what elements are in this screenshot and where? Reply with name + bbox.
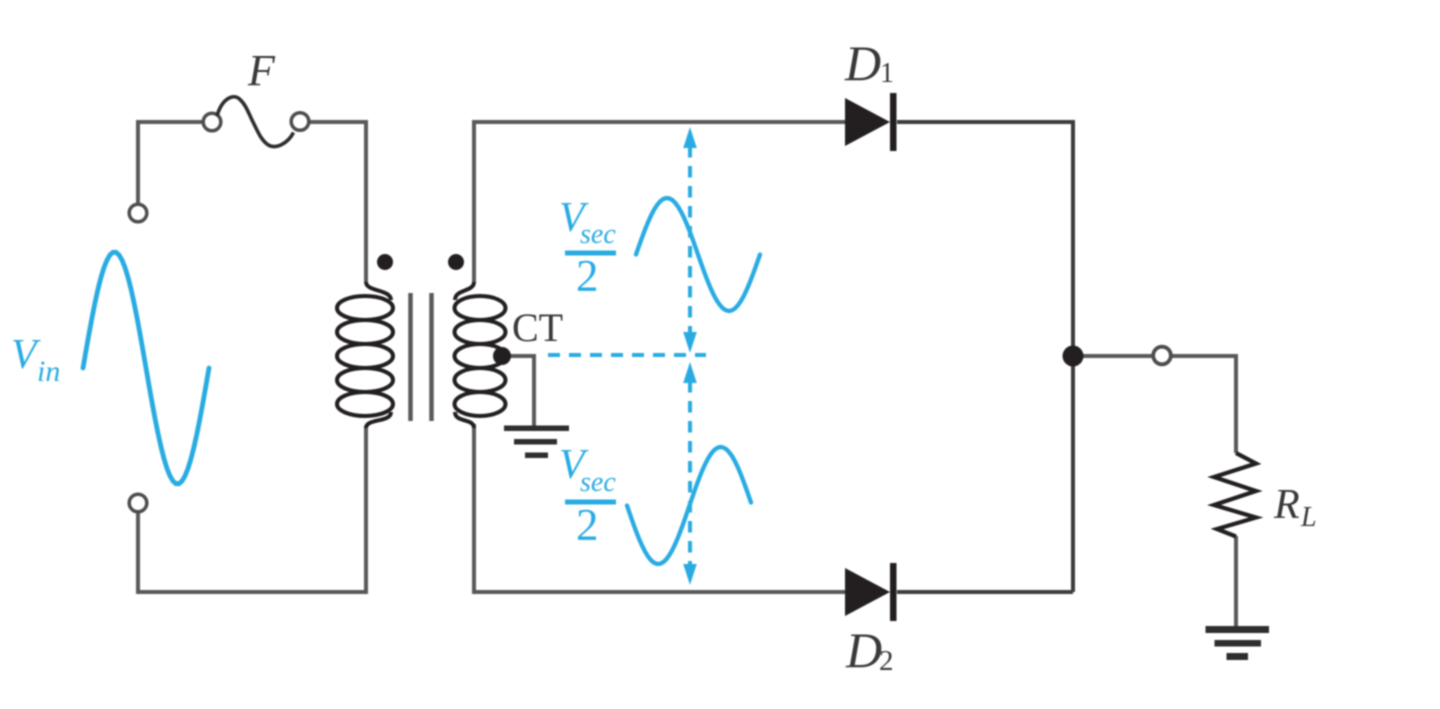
wire D1 cathode to right rail down to bottom [897, 122, 1073, 592]
Vsec/2 bottom sine wave [627, 447, 751, 564]
transformer core [411, 293, 432, 421]
svg-text:2: 2 [879, 645, 894, 677]
wire Vin bottom terminal to transformer primary bottom [138, 426, 366, 592]
svg-text:sec: sec [580, 467, 616, 498]
diode D2 [845, 563, 897, 621]
arrow down (bottom of lower dimension) [683, 564, 697, 585]
diode D1 [845, 93, 897, 151]
svg-text:D: D [845, 622, 882, 678]
wire output terminal to load resistor RL [1171, 356, 1236, 453]
Vsec/2 top sine wave [636, 198, 760, 311]
fuse F right terminal circle [291, 113, 309, 131]
arrow down (bottom of upper dimension) [683, 332, 697, 353]
Vin bottom terminal circle [129, 494, 147, 512]
wire transformer secondary top to diode D1 anode [474, 122, 846, 282]
dashed dimension line upper half [688, 146, 692, 336]
Vin top terminal circle [129, 204, 147, 222]
arrow up (top of upper dimension) [683, 127, 697, 148]
wire RL to ground [1234, 536, 1238, 626]
center tap node CT dot [493, 347, 511, 365]
resistor RL zigzag [1214, 453, 1256, 537]
wire D2 cathode to right rail [897, 590, 1073, 594]
svg-text:sec: sec [580, 219, 616, 250]
svg-text:D: D [844, 35, 881, 91]
wire junction to output terminal [1073, 354, 1153, 358]
wire fuse to transformer primary top [309, 122, 366, 282]
fuse F element curve [217, 97, 294, 147]
fuse F left terminal circle [203, 113, 221, 131]
arrow up (top of lower dimension) [683, 362, 697, 383]
svg-text:2: 2 [576, 500, 599, 550]
svg-text:1: 1 [880, 58, 894, 89]
ground under center tap [504, 426, 569, 459]
dashed center-tap reference line [548, 353, 706, 357]
svg-text:2: 2 [576, 251, 599, 301]
svg-text:F: F [247, 46, 276, 95]
wire center tap to ground [508, 356, 534, 426]
output terminal circle [1153, 347, 1171, 365]
transformer primary winding [337, 282, 393, 428]
transformer secondary phasing dot [448, 254, 464, 270]
svg-text:L: L [1300, 502, 1317, 533]
wire transformer secondary bottom to diode D2 anode [474, 424, 846, 592]
transformer primary phasing dot [377, 254, 393, 270]
junction node dot at right rail [1063, 346, 1084, 367]
svg-text:CT: CT [512, 305, 563, 350]
dashed dimension line lower half [688, 381, 692, 565]
svg-text:R: R [1273, 482, 1300, 528]
Vin source sine wave [83, 252, 209, 483]
svg-text:in: in [37, 355, 60, 388]
transformer secondary winding [455, 282, 506, 428]
wire top-left from Vin top terminal to fuse [138, 122, 202, 204]
ground under RL [1206, 626, 1270, 660]
